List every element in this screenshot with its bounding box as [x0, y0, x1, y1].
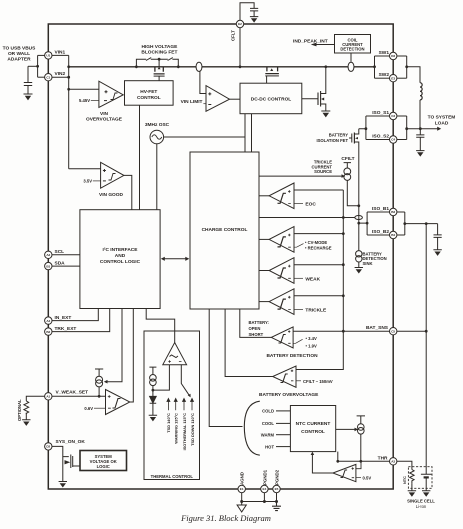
wire PGND2 stub: [276, 493, 278, 502]
svg-text:• 1.9V: • 1.9V: [306, 343, 317, 348]
wire ISO_B internal: [359, 212, 390, 235]
wire NTC comp output arrow into box: [312, 454, 333, 473]
box COIL CURRENT DETECTION: [335, 35, 371, 54]
node SW rail junction: [373, 65, 376, 68]
node NMOS drain on rail: [324, 65, 327, 68]
node ISO_B external: [403, 222, 406, 225]
op-amp WEAK comparator: [269, 258, 294, 284]
svg-text:TSD DOWN 110°C: TSD DOWN 110°C: [190, 413, 195, 446]
wire PGND1 stub: [263, 493, 265, 502]
arrow threshold ISOTHERMAL: [183, 398, 186, 410]
svg-text:CFILT: CFILT: [341, 156, 354, 162]
wire thermal sense to comparator: [153, 365, 170, 390]
wire COOL: [276, 422, 290, 424]
op-amp VIN OVERVOLTAGE comparator: [99, 81, 123, 107]
ground low-side NMOS: [321, 111, 330, 117]
wire VIN1 external stub: [38, 54, 45, 56]
op-amp weak comparator 0.6V: [106, 390, 130, 415]
node fet-left: [135, 65, 138, 68]
pin PGND1: [261, 485, 268, 492]
svg-text:HV-FET: HV-FET: [140, 89, 157, 95]
wire trickle source feed arrow: [259, 175, 343, 177]
pin PGND2: [273, 485, 280, 492]
svg-text:U1: U1: [46, 54, 50, 58]
wire thermal threshold selector: [181, 365, 190, 397]
svg-text:VIN2: VIN2: [55, 71, 66, 77]
ground battery detection sink: [355, 268, 363, 273]
box HV-FET CONTROL: [125, 81, 174, 106]
wire VIN2 internal stub: [52, 76, 69, 78]
arrow threshold TSDDOWN: [191, 398, 194, 410]
transistor battery isolation FET: [351, 134, 353, 143]
wire to system load: [407, 128, 439, 130]
node VIN junction: [36, 65, 39, 68]
svg-text:EOC: EOC: [305, 202, 316, 208]
wire SW1 external stub: [397, 55, 407, 57]
wire EOC output: [259, 195, 269, 197]
wire VIN2 external stub: [38, 76, 45, 78]
node battery rail batsns: [425, 330, 428, 333]
ground battery: [422, 491, 430, 496]
svg-text:BATTERY: BATTERY: [329, 133, 349, 138]
resistor optional: [24, 401, 29, 413]
svg-text:CONTROL: CONTROL: [137, 95, 161, 101]
wire THR internal: [338, 460, 390, 462]
svg-text:BLOCKING FET: BLOCKING FET: [141, 49, 177, 55]
node pgnd1: [263, 500, 266, 503]
op-amp thermal comparator: [163, 343, 187, 365]
wire VIN LIMIT ref: [203, 103, 206, 105]
node ISO_S internal junction: [365, 127, 368, 130]
svg-text:5.45V: 5.45V: [79, 98, 90, 103]
wire HV-FET control to logic: [139, 105, 141, 210]
wire charge bus: [259, 217, 355, 219]
sense oval battery current: [355, 216, 363, 220]
wire inductor to ISO_S node: [419, 100, 421, 129]
svg-text:WARM: WARM: [261, 433, 275, 438]
svg-text:ISO_B2: ISO_B2: [372, 229, 389, 235]
wire TRICKLE plus input to rail: [294, 295, 343, 297]
wire ISO_B external vertical: [404, 212, 406, 235]
svg-text:BATTERY DETECTION: BATTERY DETECTION: [266, 353, 318, 359]
wire logic to thermal comparator: [146, 309, 175, 343]
node CFLT rail junction: [239, 65, 242, 68]
wire weak source control arrow: [107, 309, 123, 382]
wire WEAK plus input to rail: [294, 264, 343, 266]
wire EOC minus stub: [294, 203, 303, 205]
wire HOT: [276, 446, 290, 448]
wire osc to logic: [156, 144, 158, 210]
pin V_WEAK_SET: [45, 393, 52, 400]
node thermal sense: [152, 389, 155, 392]
wire CFLT pin to rail: [239, 28, 241, 67]
wire battery overvoltage output: [225, 309, 273, 377]
op-amp VIN LIMIT: [206, 86, 230, 112]
dashed box NTC and battery: [408, 467, 432, 489]
op-amp VIN GOOD comparator: [101, 162, 124, 188]
svg-text:3MHz OSC: 3MHz OSC: [145, 122, 170, 128]
current source thermal: [150, 375, 157, 382]
wire SW external vertical: [406, 56, 408, 78]
wire DC-DC gate to low-side FET: [302, 98, 318, 100]
wire CV plus input to rail: [294, 233, 343, 235]
svg-text:VIN1: VIN1: [55, 49, 66, 55]
svg-text:D3: D3: [391, 54, 395, 58]
svg-text:SCL: SCL: [55, 249, 65, 255]
node ISO_S external junction: [405, 127, 408, 130]
svg-text:CHARGE CONTROL: CHARGE CONTROL: [202, 227, 248, 233]
transistor system NMOS: [63, 455, 73, 469]
svg-text:SINK: SINK: [363, 261, 373, 266]
node trickle-rail: [357, 204, 360, 207]
svg-text:THERMAL CONTROL: THERMAL CONTROL: [151, 474, 194, 479]
ground optional resistor: [22, 420, 30, 425]
transistor low-side NMOS: [318, 91, 321, 107]
node switch center: [158, 58, 161, 61]
pin SW2: [390, 75, 397, 82]
box DC-DC CONTROL: [240, 83, 302, 114]
wire battery rail: [425, 224, 427, 473]
svg-text:ADAPTER: ADAPTER: [7, 57, 31, 63]
svg-text:E4: E4: [263, 487, 267, 491]
svg-text:SW2: SW2: [379, 72, 390, 78]
pin IN_EXT: [45, 317, 52, 324]
wire BAT_SNS external stub: [397, 330, 426, 332]
wire SW1 internal stub: [375, 55, 390, 57]
wire THR external to thermistor: [397, 461, 412, 469]
wire ISO_B2 external stub: [397, 234, 405, 236]
wire ISO_S external vertical: [406, 116, 408, 140]
svg-text:BATTERY:: BATTERY:: [249, 320, 269, 325]
wire battery sense rail: [296, 190, 343, 370]
wire ISO_S1 external stub: [397, 115, 407, 117]
svg-text:C5: C5: [391, 329, 395, 333]
node THR source junction: [359, 460, 362, 463]
pin ISO_B1: [390, 208, 397, 215]
wire CFLT external cap: [240, 3, 254, 21]
pin ISO_S2: [390, 136, 397, 143]
arrow threshold WARNING: [174, 398, 177, 410]
svg-text:0.5V: 0.5V: [363, 475, 372, 480]
svg-text:CONTROL: CONTROL: [301, 429, 325, 435]
svg-text:CFILT – 150mV: CFILT – 150mV: [303, 379, 333, 384]
pin ISO_B2: [390, 231, 397, 238]
svg-text:VIN LIMIT: VIN LIMIT: [181, 99, 203, 105]
inductor L1: [420, 83, 422, 100]
transistor reverse-blocking PMOS: [265, 67, 279, 74]
svg-text:C4: C4: [391, 138, 395, 142]
svg-text:TO SYSTEM: TO SYSTEM: [428, 114, 456, 120]
wire vin-good output to logic: [124, 175, 132, 209]
wire V_WEAK_SET internal: [52, 395, 106, 397]
wire to battery rail and cap: [405, 224, 438, 235]
ground system NMOS: [59, 482, 67, 487]
wire vin-good plus input: [69, 168, 101, 170]
wire IND_PEAK_INT arrow: [313, 44, 335, 46]
wire main VIN rail: [69, 66, 375, 68]
svg-text:NTC: NTC: [402, 476, 407, 484]
svg-text:E5: E5: [275, 487, 279, 491]
wire charge to NTC brace: [209, 309, 242, 427]
wire logic-charge bidirectional arrow: [164, 258, 187, 260]
wire SCL: [52, 254, 80, 256]
node v_weak junction: [98, 395, 101, 398]
svg-text:COOL: COOL: [262, 421, 275, 426]
svg-text:TRICKLE: TRICKLE: [305, 307, 327, 313]
pin THR: [390, 458, 397, 465]
wire ISO_S internal: [359, 116, 390, 140]
wire EOC plus input to rail: [294, 189, 343, 191]
svg-text:TSD 140°C: TSD 140°C: [166, 413, 171, 433]
svg-text:SINGLE CELL: SINGLE CELL: [407, 499, 435, 504]
svg-text:CFLT: CFLT: [231, 30, 236, 41]
svg-text:DC-DC CONTROL: DC-DC CONTROL: [251, 96, 292, 102]
ground input cap: [24, 94, 33, 100]
svg-text:• RECHARGE: • RECHARGE: [305, 245, 332, 250]
svg-text:ISOTHERMAL 115°C: ISOTHERMAL 115°C: [182, 413, 187, 451]
wire NTC comp plus to THR: [356, 461, 361, 468]
wire isolation FET gate stub: [349, 137, 352, 139]
svg-text:A1: A1: [46, 395, 50, 399]
op-amp NTC comparator 0.5V: [333, 464, 356, 481]
oscillator 3MHz OSC: [150, 130, 164, 144]
pin AGND: [238, 485, 245, 492]
svg-text:A3: A3: [391, 460, 395, 464]
box THERMAL CONTROL: [144, 331, 200, 480]
op-amp TRICKLE comparator: [269, 289, 294, 315]
svg-text:DETECTION: DETECTION: [340, 46, 364, 51]
svg-text:AND: AND: [115, 253, 126, 259]
node inductor-sys junction: [419, 127, 422, 130]
svg-text:OPEN: OPEN: [249, 326, 261, 331]
capacitor system output: [416, 129, 424, 151]
wire NTC comp 0.5V ref: [356, 477, 361, 479]
svg-text:WARNING 135°C: WARNING 135°C: [174, 413, 179, 444]
svg-text:TRK_EXT: TRK_EXT: [55, 326, 77, 332]
svg-text:AGND: AGND: [240, 472, 245, 485]
svg-text:B3: B3: [391, 210, 395, 214]
wire WEAK output: [259, 270, 269, 272]
svg-text:COLD: COLD: [262, 409, 274, 414]
battery single cell: [421, 473, 432, 475]
node THR box junction: [336, 460, 339, 463]
wire TRICKLE minus stub: [294, 308, 303, 310]
wire battery detection minus slant: [293, 339, 303, 343]
node rail trickle: [342, 294, 345, 297]
svg-text:SDA: SDA: [55, 261, 66, 267]
wire PMOS gate to DC-DC: [266, 76, 268, 83]
wire CV output: [259, 238, 269, 240]
svg-text:IN_EXT: IN_EXT: [55, 315, 72, 321]
wire blocking FET gate: [158, 76, 160, 81]
wire trickle source to battery rail: [347, 180, 359, 205]
svg-text:HOT: HOT: [265, 444, 274, 449]
pin SDA: [45, 262, 52, 269]
op-amp battery detection comparator: [271, 327, 293, 348]
wire SDA: [52, 265, 80, 267]
wire sink to ground: [358, 262, 360, 268]
wire ISO_S2 external stub: [397, 139, 407, 141]
box CHARGE CONTROL: [190, 152, 259, 309]
svg-text:THR: THR: [378, 455, 388, 461]
wire AGND stub: [241, 493, 243, 502]
svg-text:0.6V: 0.6V: [84, 406, 93, 411]
pin SCL: [45, 251, 52, 258]
op-amp EOC comparator: [269, 183, 294, 209]
svg-text:OVERVOLTAGE: OVERVOLTAGE: [86, 116, 123, 122]
wire internal VIN rail vertical: [68, 55, 70, 168]
svg-text:A2: A2: [46, 253, 50, 257]
wire battery overvoltage minus stub: [296, 380, 301, 382]
svg-text:B4: B4: [391, 233, 395, 237]
thermistor NTC: [410, 470, 414, 484]
wire bypass switch path: [136, 59, 178, 67]
node rail weak: [342, 263, 345, 266]
wire IN_EXT: [52, 309, 98, 321]
node rail bus: [342, 216, 345, 219]
pin BAT_SNS: [390, 328, 397, 335]
svg-text:A4: A4: [46, 319, 50, 323]
wire switch center to fet: [158, 59, 160, 67]
pin SW1: [390, 52, 397, 59]
svg-text:LOGIC: LOGIC: [97, 464, 110, 469]
current source trickle: [344, 168, 351, 175]
pin CFLT: [236, 20, 243, 27]
wire thermal source to diode: [152, 386, 154, 397]
node rail-ovlo: [67, 88, 70, 91]
wire SW2 internal stub: [375, 77, 390, 79]
svg-text:3.5V: 3.5V: [83, 178, 92, 183]
wire SW internal vertical: [374, 56, 376, 78]
svg-text:SHORT: SHORT: [249, 332, 264, 337]
wire BAT_SNS internal: [293, 330, 389, 332]
svg-text:C3: C3: [391, 114, 395, 118]
node battery rail top: [425, 222, 428, 225]
svg-text:HIGH VOLTAGE: HIGH VOLTAGE: [141, 44, 178, 50]
svg-text:Li-Ion: Li-Ion: [416, 504, 427, 509]
svg-text:SOURCE: SOURCE: [314, 169, 332, 174]
svg-text:ISOLATION FET: ISOLATION FET: [316, 138, 348, 143]
svg-text:WEAK: WEAK: [305, 276, 320, 282]
svg-text:VIN: VIN: [100, 111, 109, 117]
diode thermal: [150, 396, 157, 403]
svg-text:ISO_B1: ISO_B1: [372, 206, 389, 212]
svg-text:PGND1: PGND1: [262, 469, 267, 485]
wire SW2 external stub: [397, 77, 407, 79]
svg-text:PGND2: PGND2: [274, 469, 279, 485]
wire weak comp output to logic: [130, 309, 134, 403]
wire NTC box sense to THR: [337, 452, 339, 462]
wire NTC box to source arrow: [336, 428, 356, 430]
svg-text:SW1: SW1: [379, 50, 390, 56]
ground system cap: [416, 151, 424, 156]
node rail batsns: [342, 330, 345, 333]
node rail-main: [67, 65, 70, 68]
wire battery detection output: [240, 309, 271, 337]
pin VIN1: [45, 52, 52, 59]
svg-text:E2: E2: [238, 22, 242, 26]
wire V_WEAK_SET external to resistor: [26, 396, 44, 401]
wire COLD: [276, 410, 290, 412]
op-amp battery overvoltage comparator: [273, 366, 296, 387]
pin SYS_ON_OK: [45, 443, 52, 450]
box I2C INTERFACE AND CONTROL LOGIC: [80, 210, 160, 309]
svg-text:ISO_S1: ISO_S1: [372, 110, 389, 116]
svg-text:IND_PEAK_INT: IND_PEAK_INT: [293, 39, 328, 45]
op-amp CV-MODE comparator: [269, 227, 294, 253]
svg-text:C1: C1: [46, 75, 50, 79]
svg-text:OR WALL: OR WALL: [8, 51, 30, 57]
ground AGND open triangle: [237, 502, 246, 513]
svg-text:B1: B1: [46, 264, 50, 268]
svg-text:D2: D2: [46, 445, 50, 449]
node ISO_B corner: [366, 222, 369, 225]
wire vin-good ref: [93, 180, 101, 182]
wire ground bus: [242, 501, 277, 503]
supply T weak source: [95, 369, 103, 376]
arrow threshold TSD140: [167, 398, 170, 410]
wire SYS_ON_OK internal: [52, 446, 63, 481]
svg-text:LOAD: LOAD: [435, 120, 449, 126]
svg-text:I²C INTERFACE: I²C INTERFACE: [103, 247, 139, 253]
ground thermal diode: [149, 415, 157, 420]
svg-text:CONTROL LOGIC: CONTROL LOGIC: [100, 259, 141, 265]
supply T CFILT: [344, 163, 351, 168]
svg-text:V_WEAK_SET: V_WEAK_SET: [56, 390, 89, 396]
current sink battery detection: [356, 251, 362, 257]
svg-text:Figure 31. Block Diagram: Figure 31. Block Diagram: [180, 513, 271, 523]
ground battery cap: [433, 250, 441, 255]
ground CFLT cap: [250, 17, 258, 22]
current source NTC: [358, 424, 365, 431]
wire 0.6V ref: [94, 407, 106, 409]
pin VIN2: [45, 74, 52, 81]
switch contact right: [168, 58, 173, 61]
wire weak source to node: [98, 387, 100, 396]
node pgnd2: [275, 500, 278, 503]
svg-text:OPTIONAL: OPTIONAL: [17, 399, 22, 421]
svg-text:• 3.4V: • 3.4V: [306, 336, 317, 341]
wire battery rail to sink: [358, 206, 360, 251]
svg-text:B2: B2: [46, 330, 50, 334]
wire ovlo 5.45V ref: [91, 100, 99, 102]
wire CV minus slant: [294, 244, 304, 248]
wire WEAK minus stub: [294, 277, 303, 279]
node agnd: [240, 500, 243, 503]
svg-text:SYS_ON_OK: SYS_ON_OK: [56, 439, 86, 445]
svg-text:BATTERY OVERVOLTAGE: BATTERY OVERVOLTAGE: [259, 392, 319, 398]
node rail iso_b: [357, 222, 360, 225]
brace NTC inputs: [244, 401, 259, 455]
svg-text:E1: E1: [240, 487, 244, 491]
svg-text:TO USB VBUS: TO USB VBUS: [3, 46, 36, 52]
wire resistor to ground: [25, 413, 27, 420]
pin ISO_S1: [390, 112, 397, 119]
capacitor CFLT: [250, 8, 258, 16]
node rail-VIN2: [67, 76, 70, 79]
wire osc to dcdc-charge link: [164, 136, 245, 138]
box SYSTEM VOLTAGE OK LOGIC: [80, 451, 127, 471]
node SW external junction: [405, 65, 408, 68]
chip boundary: [48, 24, 393, 489]
supply T thermal source: [149, 367, 156, 374]
pin TRK_EXT: [45, 328, 52, 335]
node fet-right: [177, 65, 180, 68]
wire VIN1 internal stub: [52, 54, 69, 56]
wire dcdc-charge link right: [251, 114, 253, 152]
node rail cv: [342, 232, 345, 235]
wire external VIN vertical: [37, 55, 39, 77]
